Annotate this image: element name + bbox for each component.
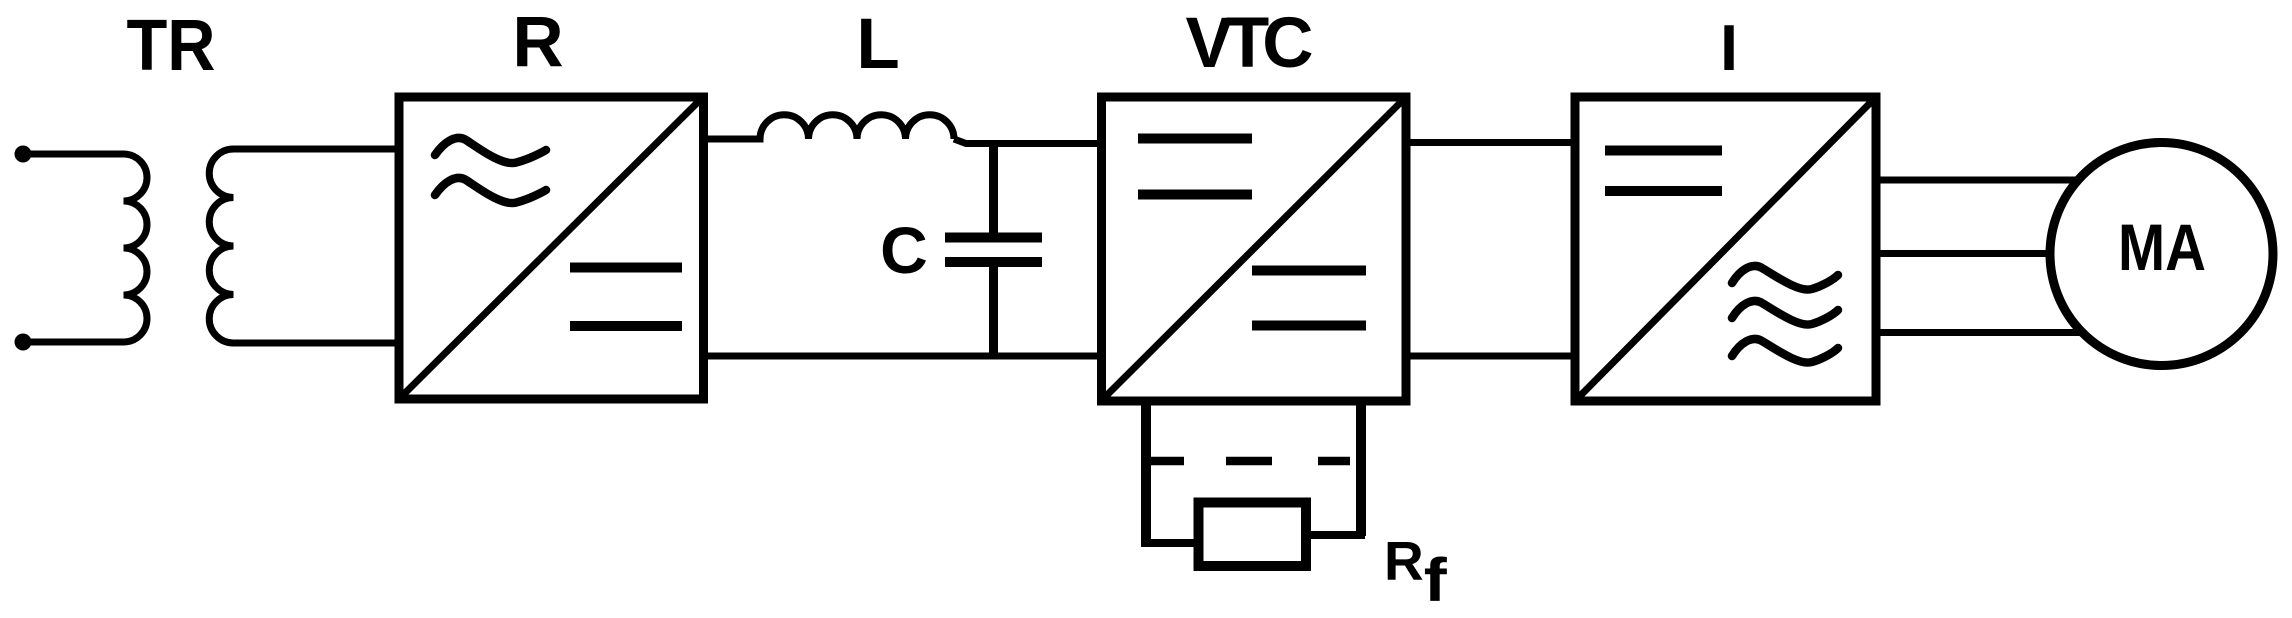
motor MA circle [2050, 143, 2273, 366]
wire resistor Rf left connection [1142, 539, 1199, 547]
inverter I DC bar 1 [1605, 146, 1722, 156]
wire motor phase 1 [1876, 177, 2080, 184]
wire resistor Rf right connection [1306, 531, 1365, 539]
capacitor C bottom lead [989, 265, 998, 357]
wire motor phase 2 [1876, 250, 2052, 257]
wire top rail VTC to I [1406, 139, 1577, 146]
rectifier R diagonal [402, 100, 700, 396]
wire top rail L to VTC [954, 139, 1103, 144]
svg-text:R: R [512, 3, 563, 82]
converter VTC output DC bar 2 [1252, 321, 1366, 331]
wire chopper left leg [1141, 401, 1151, 547]
rectifier R DC symbol bar 2 [570, 321, 682, 331]
converter VTC input DC bar 1 [1138, 134, 1252, 144]
resistor Rf body [1199, 503, 1307, 567]
converter VTC input DC bar 2 [1138, 190, 1252, 200]
inverter I DC bar 2 [1605, 186, 1722, 196]
wire motor phase 3 [1876, 329, 2082, 336]
svg-text:VTC: VTC [1186, 4, 1313, 83]
inverter I block outline [1575, 97, 1876, 401]
inverter I AC wave 2 [1732, 301, 1838, 325]
chopper dashed link dash 1 [1151, 457, 1184, 466]
rectifier R AC symbol wave 2 [435, 178, 546, 203]
rectifier R AC symbol wave 1 [435, 138, 546, 163]
inverter I AC wave 3 [1732, 339, 1838, 363]
svg-text:Rf: Rf [1384, 530, 1447, 614]
rectifier R DC symbol bar 1 [570, 263, 682, 273]
svg-text:L: L [856, 5, 899, 84]
wire bottom rail VTC to I [1406, 353, 1577, 360]
svg-text:MA: MA [2118, 210, 2206, 284]
inverter I diagonal [1578, 100, 1873, 398]
converter VTC output DC bar 1 [1252, 266, 1366, 276]
converter VTC diagonal [1104, 100, 1403, 398]
chopper dashed link dash 2 [1226, 457, 1272, 466]
capacitor C top plate [945, 233, 1042, 243]
converter VTC block outline [1102, 97, 1407, 401]
chopper dashed link dash 3 [1318, 457, 1350, 466]
svg-text:C: C [880, 213, 928, 287]
inverter I AC wave 1 [1732, 266, 1838, 290]
svg-text:TR: TR [127, 6, 216, 86]
inductor L [703, 115, 954, 139]
node input terminal bottom [15, 334, 32, 351]
wire chopper right leg [1356, 401, 1366, 536]
transformer TR primary winding [23, 154, 147, 342]
capacitor C bottom plate [945, 257, 1042, 267]
transformer TR secondary winding [209, 149, 399, 343]
svg-text:I: I [1720, 11, 1738, 84]
wire bottom rail R to VTC [703, 353, 1103, 360]
node input terminal top [15, 146, 32, 163]
capacitor C top lead [989, 141, 998, 234]
rectifier R block outline [399, 97, 704, 399]
